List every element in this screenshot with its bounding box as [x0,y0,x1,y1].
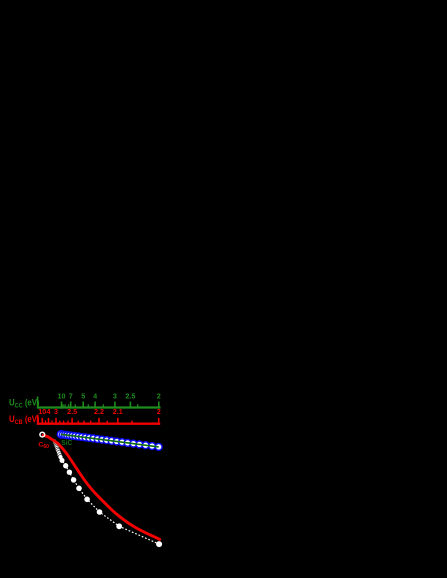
svg-text:2.2: 2.2 [94,407,104,416]
green axis U_CC line [38,406,161,408]
red C60 fit curve [43,435,160,539]
green axis U_CC major ticks [38,397,159,409]
white C60 data markers [59,458,162,547]
svg-text:2: 2 [157,407,161,416]
white C60 first marker (open ring) [40,432,45,437]
red axis U_CB tick labels [38,407,160,416]
label SiC [61,440,72,447]
svg-text:5: 5 [81,391,85,400]
dark green SiC line [61,434,159,447]
svg-text:4: 4 [93,391,97,400]
green axis U_CC minor ticks [63,404,138,407]
green axis title U_CC (eV) [9,397,40,410]
red axis U_CB line [38,423,160,425]
red axis U_CB minor ticks [45,421,131,424]
green axis U_CC tick labels [58,391,161,400]
svg-text:10: 10 [58,391,66,400]
svg-text:3: 3 [54,407,58,416]
red axis title U_CB (eV) [9,413,40,426]
svg-text:3: 3 [113,391,117,400]
svg-text:4: 4 [47,407,51,416]
blue SiC band circles [57,431,162,451]
svg-text:2: 2 [157,391,161,400]
white C60 chain markers [52,439,63,459]
svg-text:2.5: 2.5 [67,407,77,416]
svg-text:2.1: 2.1 [113,407,123,416]
white C60 dashed connector line [42,435,159,544]
svg-text:7: 7 [69,391,73,400]
svg-text:2.5: 2.5 [125,391,135,400]
red axis U_CB major ticks [38,415,159,425]
svg-text:SiC: SiC [61,440,72,447]
